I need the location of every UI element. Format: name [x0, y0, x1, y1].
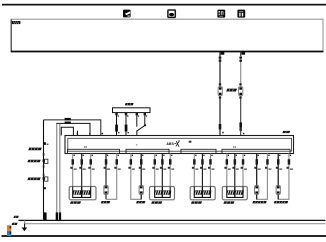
- label Y36/2: [136, 201, 145, 203]
- ground bus 31b: [25, 220, 326, 223]
- wire pin26 to B37/2: [154, 154, 156, 187]
- pin 4 S40: [144, 113, 146, 116]
- icon battery G1: [168, 10, 175, 17]
- ground symbol W10: [24, 224, 26, 228]
- connector strip X4: [222, 149, 290, 153]
- icon ignition switch S1: [217, 10, 225, 18]
- legend mark 30: [7, 225, 11, 231]
- ground junction W31a: [56, 212, 58, 220]
- wire pin32 to B37/3: [209, 154, 211, 187]
- bottom border line: [2, 235, 326, 237]
- pin stub 14: [77, 131, 79, 136]
- splice mark lower left wire: [219, 124, 222, 129]
- label Z1: [13, 216, 18, 218]
- wire pin36 to B37/4: [242, 154, 244, 187]
- connector X87/4: [276, 186, 280, 195]
- fuse/relay box F32: [11, 19, 324, 51]
- label asterisk: [189, 141, 192, 143]
- wire pin30 to B37/3: [193, 154, 195, 187]
- connector X30/4: [43, 159, 48, 163]
- svg-text:34: 34: [233, 145, 237, 149]
- pin dot 32: [222, 132, 224, 134]
- connector X87/3: [255, 186, 259, 195]
- label B37/4: [223, 201, 234, 203]
- splice TD2: [65, 122, 71, 124]
- switch contact S40: [137, 125, 146, 131]
- label Y36/1: [101, 201, 110, 203]
- ground junction W30: [44, 212, 47, 220]
- wire pin22 valve Y36/2: [131, 154, 141, 200]
- wire S40 pin3 to N47: [136, 115, 138, 135]
- tap mark rail lower: [44, 187, 46, 189]
- wire S40 pin4 stub: [144, 115, 146, 125]
- pin 7 fuse box: [242, 52, 246, 55]
- pin dots N47 top: [77, 133, 79, 135]
- icon relay module K1: [237, 10, 245, 18]
- svg-text:45: 45: [84, 145, 88, 149]
- legend mark 31: [7, 231, 11, 236]
- pin 5 fuse box: [221, 52, 225, 55]
- wire pin35 to B37/4: [234, 154, 236, 187]
- label S40: [125, 103, 134, 105]
- top border line: [2, 4, 326, 6]
- splice marks wire right: [239, 57, 242, 59]
- wheel speed sensor B37/1: [69, 187, 96, 200]
- svg-text:ABS: ABS: [166, 141, 174, 146]
- ground bus 31: [19, 219, 326, 221]
- wheel speed sensor B37/3: [190, 187, 215, 200]
- wire return Y36/1: [106, 154, 117, 200]
- splice marks wire left: [219, 57, 222, 59]
- wire S40 pin1 to N47: [116, 115, 118, 135]
- label B37/2: [151, 201, 162, 203]
- wire pin28 to B37/2: [169, 154, 171, 187]
- pin dot 47: [243, 133, 245, 135]
- pin 2 S40: [125, 113, 127, 116]
- connector X87/2: [139, 186, 143, 195]
- symbol pump M: [174, 140, 179, 146]
- fuse F1 inline: [115, 125, 118, 132]
- wire pin34 to B37/4: [226, 154, 228, 187]
- connector strip X3: [181, 149, 216, 153]
- label N30/4: [282, 131, 290, 133]
- label 200A: [27, 160, 40, 163]
- pin 1 S40: [115, 113, 117, 116]
- tap mark rail 30: [44, 142, 46, 145]
- wire valve loop 3: [257, 154, 268, 200]
- connector X30/7: [43, 177, 48, 181]
- wire ground branch to pin 17: [56, 123, 90, 135]
- switch unit S40: [113, 108, 151, 113]
- label 40M: [27, 178, 40, 181]
- label 30-N42: [28, 148, 42, 151]
- ground junction W31b: [59, 212, 61, 220]
- wire pin27 to B37/2: [161, 154, 163, 187]
- wire 30 horizontal to pin 16: [44, 120, 101, 136]
- rail wire dashes: [43, 153, 45, 156]
- label W7: [12, 223, 18, 225]
- wire loop to pin 15: [61, 127, 73, 135]
- connector X87/1: [104, 186, 108, 195]
- wire 30h feed left: [219, 52, 221, 136]
- wire circuit 30 rail: [43, 120, 45, 220]
- connector X206/2: [239, 83, 243, 98]
- label X206/1: [226, 89, 237, 92]
- icon fuse F58: [123, 10, 131, 18]
- label X22/16: [252, 201, 266, 203]
- pin 3 S40: [136, 113, 138, 116]
- wire valve loop 4: [278, 154, 289, 200]
- gray rail 31 a: [56, 124, 58, 220]
- splice TD1: [65, 118, 71, 120]
- gray rail 31 b: [59, 124, 61, 220]
- svg-text:o: o: [136, 143, 138, 147]
- wire pin41 to B37/1: [81, 154, 83, 187]
- fuse F2 inline: [125, 125, 128, 132]
- wire pin31 to B37/3: [201, 154, 203, 187]
- wire pin40 to B37/1: [72, 154, 74, 187]
- wheel speed sensor B37/2: [150, 187, 175, 200]
- wire S40 pin2 to N47: [125, 115, 127, 135]
- label B37/1: [70, 201, 81, 203]
- wheel speed sensor B37/4: [222, 187, 247, 200]
- wire pin42 to B37/1: [90, 154, 92, 187]
- label F32: [12, 21, 21, 24]
- wire pin20 valve Y36/1: [105, 154, 107, 200]
- ABS control unit N47 outline: [65, 136, 294, 154]
- pin dots below fuses: [118, 132, 119, 133]
- wire 30h feed right: [240, 52, 242, 57]
- N47 inner wall: [68, 138, 292, 151]
- connector X206/1: [218, 83, 222, 98]
- connector strip X2: [126, 149, 169, 153]
- label B37/3: [191, 201, 202, 203]
- connector strip X1: [68, 149, 120, 153]
- splice mark lower right wire: [239, 122, 242, 127]
- label X22/17: [274, 201, 288, 203]
